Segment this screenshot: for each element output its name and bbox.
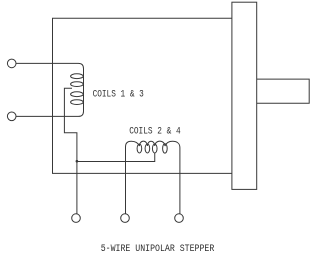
terminal circle T1 (coil 1&3 end, left top) (7, 59, 16, 68)
svg-text:COILS 1 & 3: COILS 1 & 3 (93, 88, 144, 99)
wire: coil 1&3 center tap down to common junction and terminal T3 (64, 88, 77, 214)
junction dot: common center-tap node (76, 160, 79, 163)
coil L2/L4 winding loop 3 (152, 144, 157, 153)
svg-text:COILS 2 & 4: COILS 2 & 4 (129, 126, 181, 137)
terminal circle T3 (common, bottom left) (72, 214, 81, 223)
motor flange rectangle (232, 2, 257, 189)
coil L1/L3 winding loop 1 (71, 74, 84, 79)
coil L1/L3 winding loop 3 (71, 92, 84, 97)
coil L1/L3 outline with leads (wire T1 to top, wire T2 to bottom) (16, 63, 84, 116)
coil L2/L4 winding loop 4 (163, 144, 168, 153)
coil L2/L4 winding loop 1 (137, 144, 142, 153)
coil L2/L4 winding loop 2 (145, 144, 150, 153)
svg-text:5-WIRE UNIPOLAR STEPPER: 5-WIRE UNIPOLAR STEPPER (101, 243, 215, 254)
motor shaft rectangle (257, 79, 310, 103)
coil L2/L4 body with leads (humps) (126, 141, 180, 214)
coil L1/L3 winding loop 2 (71, 82, 84, 87)
terminal circle T2 (coil 1&3 end, left bottom) (7, 112, 16, 121)
terminal circle T4 (coil 2&4 end, bottom middle) (121, 214, 130, 223)
motor body rectangle (53, 18, 233, 173)
terminal circle T5 (coil 2&4 end, bottom right) (175, 214, 184, 223)
coil L1/L3 winding loop 4 (71, 100, 84, 105)
wire: common junction to coil 2&4 center tap (77, 153, 155, 162)
